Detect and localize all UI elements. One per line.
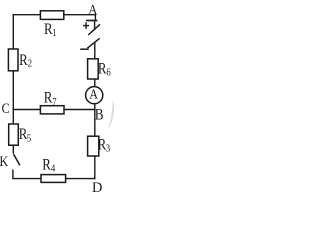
wire ammeter to node B: [94, 104, 96, 110]
svg-text:K: K: [0, 154, 9, 170]
wire top-right horizontal to node A corner: [64, 15, 96, 21]
svg-text:A: A: [89, 86, 98, 101]
wire R4 to node D: [65, 178, 95, 180]
watermark swoosh: [108, 99, 115, 130]
resistor R7: [40, 106, 64, 114]
battery contact slash (upper): [88, 24, 100, 35]
ammeter A1 circle: [86, 87, 103, 104]
wire R6 to ammeter: [94, 79, 96, 87]
wire R5 to switch K: [12, 145, 14, 153]
svg-text:5: 5: [27, 134, 31, 145]
switch K blade: [14, 154, 20, 165]
svg-text:A: A: [88, 2, 97, 18]
svg-text:6: 6: [106, 68, 110, 79]
wire bar to contact slash: [94, 21, 96, 31]
wire R7 to node B: [64, 109, 96, 111]
battery second cell diagonal plate: [87, 38, 99, 48]
wire C to R7: [13, 109, 41, 111]
resistor R4: [41, 175, 66, 183]
wire top-left horizontal: [13, 14, 41, 16]
wire left vertical top (A-corner to R2): [12, 14, 14, 49]
battery positive plate: [86, 20, 97, 22]
wire node B to R3: [94, 110, 96, 137]
svg-text:1: 1: [52, 28, 56, 39]
svg-text:7: 7: [52, 97, 56, 108]
resistor R3: [88, 136, 99, 156]
wire R3 to node D: [94, 156, 96, 179]
resistor R2: [8, 49, 18, 71]
svg-text:4: 4: [51, 163, 56, 174]
svg-text:B: B: [95, 107, 104, 124]
svg-text:2: 2: [28, 59, 32, 70]
svg-text:R: R: [42, 156, 51, 173]
svg-text:C: C: [2, 101, 10, 117]
wire switch K lower contact to bottom-left corner: [13, 170, 41, 179]
battery plus sign: [83, 25, 89, 27]
resistor R6: [88, 59, 99, 79]
battery second cell tick: [80, 48, 89, 50]
svg-text:R: R: [44, 90, 53, 107]
svg-text:3: 3: [106, 144, 110, 155]
resistor R1: [40, 11, 63, 20]
svg-text:D: D: [92, 180, 103, 196]
resistor R5: [9, 124, 19, 145]
wire R2 to C to R5: [12, 71, 14, 125]
wire battery to R6: [94, 42, 96, 59]
